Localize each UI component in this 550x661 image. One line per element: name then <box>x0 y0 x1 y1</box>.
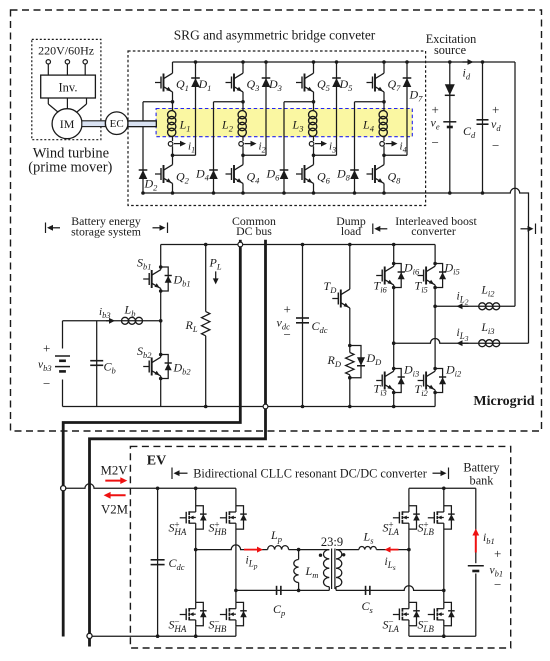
svg-text:vb3: vb3 <box>38 359 52 373</box>
svg-text:i1: i1 <box>188 141 195 155</box>
svg-text:Bidirectional CLLC resonant DC: Bidirectional CLLC resonant DC/DC conver… <box>193 467 427 481</box>
svg-text:+: + <box>494 546 501 561</box>
svg-text:Db1: Db1 <box>173 273 191 289</box>
svg-text:D8: D8 <box>336 167 351 183</box>
svg-text:−: − <box>432 135 439 150</box>
svg-text:DC bus: DC bus <box>236 224 272 238</box>
svg-text:+: + <box>492 102 499 117</box>
svg-text:S−LA: S−LA <box>383 616 400 634</box>
svg-text:Lp: Lp <box>270 528 282 544</box>
svg-text:Cdc: Cdc <box>169 556 185 572</box>
svg-text:Di2: Di2 <box>445 363 462 379</box>
svg-text:Cd: Cd <box>463 124 476 140</box>
svg-text:Di3: Di3 <box>403 363 419 379</box>
svg-text:TD: TD <box>324 279 338 295</box>
svg-text:RL: RL <box>185 318 198 334</box>
svg-text:Battery: Battery <box>463 461 500 475</box>
svg-text:−: − <box>284 327 291 342</box>
svg-text:Q1: Q1 <box>176 77 189 93</box>
svg-text:IM: IM <box>60 117 75 131</box>
svg-text:V2M: V2M <box>101 503 128 517</box>
svg-text:(prime mover): (prime mover) <box>28 160 112 176</box>
svg-text:S−LB: S−LB <box>418 616 435 634</box>
svg-text:DD: DD <box>366 351 383 367</box>
svg-text:D6: D6 <box>266 167 281 183</box>
svg-text:Ls: Ls <box>363 530 375 546</box>
svg-text:S−HB: S−HB <box>209 616 227 634</box>
svg-text:Di5: Di5 <box>444 261 460 277</box>
svg-text:SRG and asymmetric bridge conv: SRG and asymmetric bridge conveter <box>174 28 376 43</box>
svg-text:iLs: iLs <box>385 556 396 572</box>
svg-text:S+LA: S+LA <box>383 519 400 537</box>
svg-text:D4: D4 <box>195 167 210 183</box>
svg-text:RD: RD <box>327 353 342 369</box>
svg-text:−: − <box>43 376 50 391</box>
svg-text:+: + <box>284 302 291 317</box>
svg-text:i2: i2 <box>259 141 266 155</box>
svg-text:Q4: Q4 <box>247 170 261 186</box>
svg-text:vd: vd <box>491 117 501 133</box>
svg-text:Q8: Q8 <box>388 170 402 186</box>
svg-text:Li2: Li2 <box>481 285 496 299</box>
svg-text:Cs: Cs <box>362 599 374 615</box>
svg-text:ib1: ib1 <box>483 532 495 546</box>
svg-text:D5: D5 <box>339 77 353 93</box>
svg-text:220V/60Hz: 220V/60Hz <box>38 44 94 58</box>
svg-text:Lm: Lm <box>305 564 319 580</box>
svg-text:Di6: Di6 <box>403 261 420 277</box>
svg-text:ib3: ib3 <box>99 306 111 320</box>
svg-text:source: source <box>434 43 467 57</box>
svg-text:Lb: Lb <box>124 303 136 319</box>
svg-text:id: id <box>463 66 471 82</box>
svg-text:i4: i4 <box>400 141 407 155</box>
svg-text:Q7: Q7 <box>388 77 402 93</box>
svg-text:D3: D3 <box>268 77 282 93</box>
svg-text:Cdc: Cdc <box>312 319 328 335</box>
svg-text:M2V: M2V <box>100 463 128 477</box>
svg-text:Cp: Cp <box>273 602 285 618</box>
svg-text:Q5: Q5 <box>317 77 330 93</box>
svg-text:EC: EC <box>110 118 124 130</box>
svg-text:D1: D1 <box>198 77 212 93</box>
svg-text:D2: D2 <box>144 177 159 193</box>
svg-text:−: − <box>494 577 501 592</box>
svg-text:load: load <box>341 224 361 238</box>
svg-text:iL2: iL2 <box>457 291 469 307</box>
svg-text:Li3: Li3 <box>481 322 495 336</box>
svg-text:Q2: Q2 <box>176 170 190 186</box>
svg-text:Microgrid: Microgrid <box>473 394 534 409</box>
svg-text:i3: i3 <box>329 141 336 155</box>
svg-text:EV: EV <box>147 453 166 468</box>
svg-text:storage system: storage system <box>71 225 141 239</box>
svg-text:Q6: Q6 <box>317 170 331 186</box>
svg-text:S+HA: S+HA <box>169 519 187 537</box>
svg-text:S+LB: S+LB <box>418 519 435 537</box>
svg-text:converter: converter <box>411 224 456 238</box>
svg-text:iLp: iLp <box>246 555 258 571</box>
svg-text:Cb: Cb <box>104 360 116 376</box>
svg-text:Q3: Q3 <box>247 77 260 93</box>
svg-text:Db2: Db2 <box>173 361 192 377</box>
svg-text:bank: bank <box>470 474 495 488</box>
svg-text:Sb2: Sb2 <box>137 344 152 360</box>
svg-text:Inv.: Inv. <box>59 81 78 95</box>
svg-text:ve: ve <box>431 116 440 132</box>
svg-text:PL: PL <box>209 256 222 272</box>
svg-text:23:9: 23:9 <box>321 535 343 549</box>
svg-text:D7: D7 <box>409 88 424 104</box>
svg-text:S−HA: S−HA <box>169 616 187 634</box>
svg-text:+: + <box>43 341 50 356</box>
svg-text:iL3: iL3 <box>457 327 469 343</box>
svg-text:S+HB: S+HB <box>209 519 227 537</box>
svg-text:−: − <box>492 138 499 153</box>
svg-text:Sb1: Sb1 <box>137 256 152 272</box>
